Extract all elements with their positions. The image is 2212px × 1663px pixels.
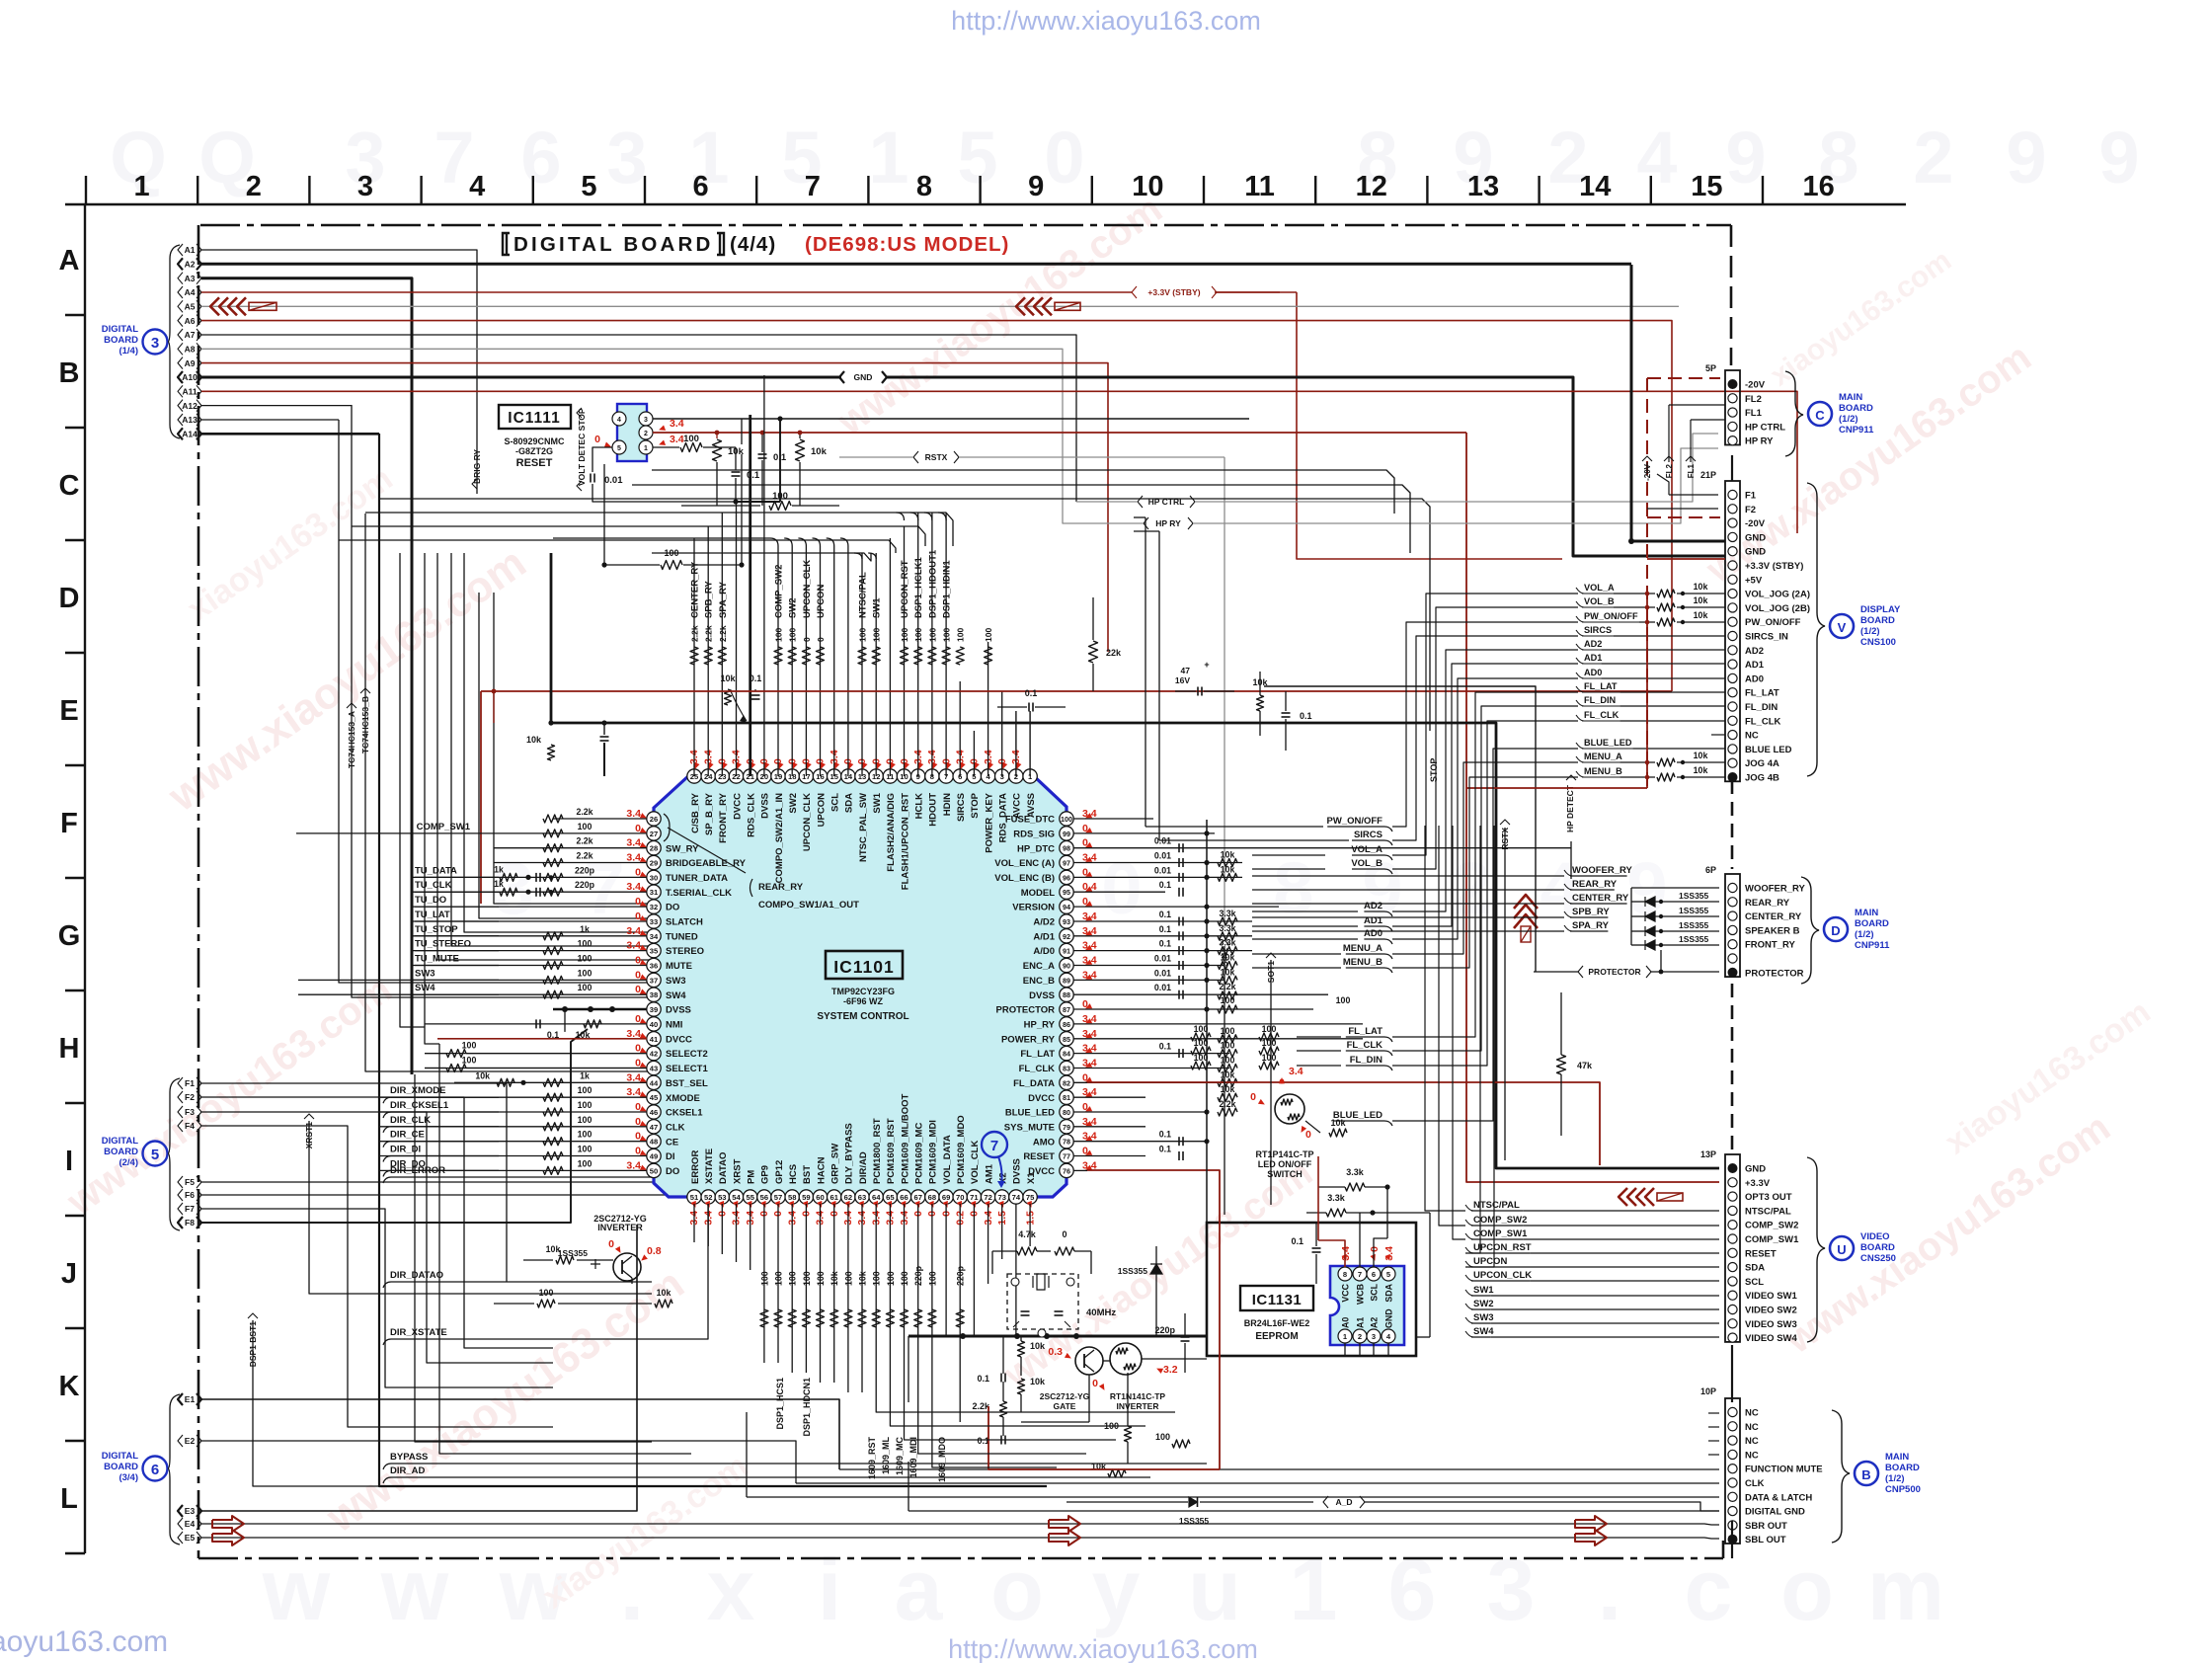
svg-text:DIGITAL: DIGITAL	[102, 324, 138, 335]
svg-text:100: 100	[578, 1100, 592, 1110]
svg-text:67: 67	[913, 1193, 921, 1202]
svg-text:HP_RY: HP_RY	[1024, 1020, 1056, 1031]
svg-text:58: 58	[788, 1193, 796, 1202]
net tag RSTX	[913, 451, 918, 463]
svg-text:RESET: RESET	[1745, 1248, 1777, 1259]
title DIGITAL BOARD	[503, 233, 510, 255]
svg-text:HDIN: HDIN	[942, 793, 953, 816]
IC1111 wires	[653, 418, 1249, 420]
47k resistor	[1557, 1055, 1566, 1074]
svg-text:81: 81	[1063, 1093, 1070, 1102]
IC1101 left pins 26..50	[647, 812, 661, 826]
svg-text:3.4: 3.4	[626, 1086, 641, 1098]
net tag E4	[178, 1518, 183, 1530]
red chevron arrow on A5 right	[1016, 297, 1025, 315]
svg-text:0.1: 0.1	[1159, 910, 1171, 919]
wire E1	[201, 1399, 839, 1469]
svg-text:PCM1609_MDO: PCM1609_MDO	[956, 1115, 967, 1184]
svg-text:86: 86	[1063, 1020, 1070, 1029]
svg-text:2.2k: 2.2k	[704, 625, 714, 642]
svg-text:ERROR: ERROR	[690, 1150, 701, 1184]
svg-text:i: i	[818, 1541, 841, 1638]
svg-text:IC1111: IC1111	[508, 410, 560, 427]
svg-text:0: 0	[608, 1238, 614, 1250]
svg-text:SIRCS_IN: SIRCS_IN	[1745, 632, 1788, 643]
svg-text:BRIDGEABLE_RY: BRIDGEABLE_RY	[666, 858, 747, 869]
svg-text:NC: NC	[1745, 1422, 1759, 1433]
svg-text:0.01: 0.01	[604, 475, 623, 486]
svg-text:100: 100	[539, 1288, 554, 1298]
wire F2	[201, 1097, 553, 1348]
wire bundle from IC1101 bottom pins	[693, 1204, 695, 1242]
capacitor 0.1 below	[732, 471, 741, 473]
svg-text:LED ON/OFF: LED ON/OFF	[1258, 1159, 1312, 1169]
svg-text:FL_DATA: FL_DATA	[1013, 1078, 1055, 1089]
svg-text:0.01: 0.01	[1154, 983, 1171, 992]
svg-text:VERSION: VERSION	[1012, 903, 1055, 913]
svg-text:0: 0	[1305, 1129, 1311, 1141]
red feeder horizontal over IC	[481, 690, 1672, 692]
svg-text:0: 0	[802, 637, 812, 642]
svg-text:0.1: 0.1	[1159, 924, 1171, 934]
wire E4 with red arrows	[201, 1524, 1719, 1525]
svg-text:VIDEO SW3: VIDEO SW3	[1745, 1319, 1797, 1330]
right pin stub wires	[1073, 818, 1153, 820]
svg-text:62: 62	[844, 1193, 852, 1202]
IC1111 pin 2	[639, 426, 653, 439]
svg-text:NTSC/PAL: NTSC/PAL	[858, 572, 869, 618]
svg-text:AD0: AD0	[1584, 668, 1602, 677]
svg-text:0.1: 0.1	[1159, 1145, 1171, 1154]
svg-text:DIR_CE: DIR_CE	[390, 1130, 425, 1141]
svg-text:A/D1: A/D1	[1033, 931, 1055, 942]
svg-text:88: 88	[1063, 990, 1070, 999]
svg-text:0.8: 0.8	[647, 1245, 662, 1257]
svg-text:VOL_B: VOL_B	[1584, 596, 1615, 606]
svg-text:TUNED: TUNED	[666, 931, 698, 942]
svg-text:COMP_SW1: COMP_SW1	[1473, 1228, 1528, 1239]
svg-text:1SS355: 1SS355	[1679, 920, 1709, 930]
svg-text:BOARD: BOARD	[104, 335, 138, 346]
svg-text:HP RY: HP RY	[1155, 518, 1181, 528]
svg-text:F7: F7	[185, 1204, 195, 1214]
svg-text:SW2: SW2	[788, 597, 799, 618]
svg-text:7: 7	[1358, 1270, 1362, 1279]
IC1111 pin 3	[639, 412, 653, 426]
svg-text:-6F96 WZ: -6F96 WZ	[843, 996, 884, 1006]
svg-text:1k: 1k	[494, 864, 504, 874]
svg-text:100: 100	[1262, 1038, 1277, 1048]
svg-text:DVSS: DVSS	[666, 1005, 691, 1016]
red open arrow SBR right	[1575, 1516, 1607, 1532]
svg-text:VIDEO SW4: VIDEO SW4	[1745, 1333, 1798, 1344]
svg-text:CLK: CLK	[1745, 1478, 1765, 1489]
svg-text:3.3k: 3.3k	[1219, 909, 1235, 918]
svg-text:COMP_SW1: COMP_SW1	[417, 822, 471, 832]
svg-text:S-80929CNMC: S-80929CNMC	[504, 436, 565, 446]
net tag E1	[178, 1393, 183, 1405]
svg-text:K: K	[59, 1371, 80, 1402]
svg-text:0.01: 0.01	[1154, 865, 1171, 875]
wire K row returns	[415, 1074, 652, 1442]
svg-text:HP DETECT: HP DETECT	[1565, 784, 1575, 832]
wire extra left vertical	[400, 553, 425, 1027]
svg-text:RDS_CLK: RDS_CLK	[747, 793, 757, 837]
svg-text:(3/4): (3/4)	[118, 1472, 138, 1483]
svg-text:1SS355: 1SS355	[558, 1248, 589, 1258]
svg-text:c: c	[1685, 1541, 1733, 1638]
svg-text:2SC2712-YG: 2SC2712-YG	[1040, 1391, 1090, 1401]
svg-text:UPCON_RST: UPCON_RST	[1473, 1242, 1532, 1253]
svg-text:G: G	[58, 920, 81, 952]
svg-text:GND: GND	[1745, 547, 1766, 558]
svg-text:SW1: SW1	[872, 792, 883, 813]
node circle 5	[143, 1142, 168, 1166]
svg-text:80: 80	[1063, 1108, 1070, 1117]
svg-text:73: 73	[997, 1193, 1005, 1202]
svg-text:BOARD: BOARD	[1855, 918, 1889, 929]
svg-text:1SS355: 1SS355	[1179, 1516, 1210, 1526]
100 resistors FL rows	[1191, 1033, 1211, 1041]
svg-text:PCM1609_MC: PCM1609_MC	[914, 1123, 925, 1184]
svg-text:0: 0	[816, 637, 826, 642]
resistor 100 horizontal above IC	[604, 564, 660, 566]
svg-text:T.SERIAL_CLK: T.SERIAL_CLK	[666, 888, 732, 899]
ruler top ticks and column numbers	[85, 176, 87, 204]
svg-text:UPCON_CLK: UPCON_CLK	[802, 560, 813, 618]
node circle 3	[143, 330, 168, 355]
node circle 6	[143, 1457, 168, 1481]
svg-text:3: 3	[151, 335, 159, 352]
svg-text:10k: 10k	[526, 735, 542, 745]
svg-text:99: 99	[1063, 830, 1070, 838]
svg-text:CLK: CLK	[666, 1122, 685, 1133]
svg-text:AD2: AD2	[1584, 639, 1602, 649]
svg-text:DSP1_HDCN1: DSP1_HDCN1	[802, 1378, 812, 1437]
svg-text:TU_LAT: TU_LAT	[415, 910, 450, 920]
svg-text:6P: 6P	[1705, 865, 1716, 875]
svg-text:2: 2	[246, 171, 262, 202]
svg-text:90: 90	[1063, 962, 1070, 971]
svg-text:52: 52	[704, 1193, 712, 1202]
IC1101 right pins 100..76	[1060, 812, 1073, 826]
svg-text:14: 14	[1579, 171, 1611, 202]
bus TC74HC153 verticals	[379, 434, 1047, 1486]
svg-text:FUSE_DTC: FUSE_DTC	[1005, 815, 1055, 826]
wire bundle mid labels to 21P labels	[1392, 622, 1578, 827]
svg-text:(2/4): (2/4)	[118, 1157, 138, 1168]
svg-text:TU_DATA: TU_DATA	[415, 865, 457, 876]
svg-text:42: 42	[650, 1050, 658, 1059]
svg-text:100: 100	[774, 1271, 784, 1286]
svg-text:D: D	[1831, 923, 1840, 938]
svg-text:DVCC: DVCC	[732, 793, 743, 820]
svg-text:ENC_B: ENC_B	[1023, 976, 1055, 987]
svg-text:6: 6	[151, 1462, 159, 1478]
resistor rows right of IC	[1218, 859, 1237, 867]
net tag E2	[178, 1435, 183, 1447]
brace C	[1785, 371, 1803, 456]
resistor 10k second	[796, 439, 805, 461]
net label DSP1 BST1 vertical	[248, 1313, 258, 1318]
svg-text:4.7k: 4.7k	[1018, 1229, 1037, 1239]
svg-text:100: 100	[872, 628, 882, 642]
BLUE_LED transistor	[1275, 1094, 1304, 1124]
svg-text:87: 87	[1063, 1005, 1070, 1014]
net tag E5	[178, 1532, 183, 1544]
wire A14 thick	[201, 433, 379, 436]
svg-text:TU_CLK: TU_CLK	[415, 880, 452, 891]
red bus DVCC to IC1131	[1087, 1170, 1220, 1469]
red open arrow SBL right	[1575, 1530, 1607, 1545]
svg-text:0: 0	[594, 434, 600, 445]
net tag PROTECTOR	[1578, 966, 1583, 978]
svg-text:93: 93	[1063, 917, 1070, 926]
net tag F5	[178, 1176, 183, 1188]
svg-text:(1/2): (1/2)	[1860, 626, 1880, 637]
svg-text:SCL: SCL	[830, 793, 841, 812]
svg-text:A10: A10	[182, 372, 197, 382]
transistor Q RT1N INVERTER	[1110, 1343, 1142, 1375]
feeder curves into drops	[770, 538, 778, 546]
brace for A group	[168, 245, 180, 438]
svg-text:WOOFER_RY: WOOFER_RY	[1745, 884, 1806, 895]
svg-text:0.1: 0.1	[773, 452, 787, 463]
bottom field risers to B connector	[876, 1402, 1175, 1412]
svg-text:FLASH2/ANA/DIG: FLASH2/ANA/DIG	[886, 793, 897, 872]
svg-text:10k: 10k	[1221, 967, 1235, 977]
red open arrow E5 mid	[1049, 1530, 1080, 1545]
wire A2 thick GND	[201, 263, 1631, 266]
svg-text:CNP500: CNP500	[1885, 1484, 1921, 1495]
svg-text:DIR/AD: DIR/AD	[858, 1151, 869, 1184]
svg-text:SYSTEM CONTROL: SYSTEM CONTROL	[817, 1011, 908, 1022]
long bottom wires to connector B	[839, 1468, 1719, 1470]
net tag E3	[178, 1505, 183, 1517]
svg-text:84: 84	[1063, 1050, 1070, 1059]
svg-text:BOARD: BOARD	[104, 1147, 138, 1157]
red vertical +3.3V net	[1466, 433, 1719, 1182]
svg-text:3.4: 3.4	[626, 925, 641, 937]
svg-text:0.1: 0.1	[747, 470, 760, 481]
svg-text:100: 100	[578, 822, 592, 831]
svg-text:3.3k: 3.3k	[1346, 1167, 1365, 1177]
svg-text:CENTER_RY: CENTER_RY	[1572, 893, 1629, 904]
wire A1	[201, 250, 477, 494]
svg-text:100: 100	[1194, 1038, 1209, 1048]
svg-text:A2: A2	[185, 260, 196, 270]
svg-text:10k: 10k	[829, 1271, 839, 1286]
svg-text:100: 100	[462, 1041, 477, 1051]
svg-text:0: 0	[1250, 1091, 1256, 1103]
svg-text:35: 35	[650, 947, 659, 956]
svg-text:FL_CLK: FL_CLK	[1347, 1040, 1383, 1051]
svg-text:A: A	[59, 245, 80, 277]
wire A7	[201, 335, 1076, 502]
svg-text:UPCON_CLK: UPCON_CLK	[1473, 1270, 1532, 1281]
svg-text:WOOFER_RY: WOOFER_RY	[1572, 865, 1633, 876]
svg-text:100: 100	[1061, 815, 1072, 824]
svg-text:3: 3	[1372, 1332, 1376, 1341]
svg-text:100: 100	[886, 1271, 896, 1286]
svg-text:DIR_DATAO: DIR_DATAO	[390, 1270, 443, 1281]
net tag A12	[178, 400, 183, 412]
resistor 100 on pin1	[653, 446, 679, 448]
wire A5 gray with red arrow	[201, 305, 1679, 307]
svg-text:3.4: 3.4	[626, 1159, 641, 1171]
vertical bundle into U label rows	[1425, 826, 1465, 1211]
svg-text:3.4: 3.4	[1289, 1066, 1303, 1077]
note REAR_RY / COMPO_SW1/A1_OUT	[668, 828, 746, 873]
net tag F4	[178, 1120, 183, 1132]
svg-text:BOARD: BOARD	[1860, 1242, 1895, 1253]
svg-text:10P: 10P	[1700, 1386, 1716, 1396]
svg-text:10k: 10k	[1330, 1118, 1346, 1128]
svg-text:1SS355: 1SS355	[1679, 906, 1709, 915]
svg-text:43: 43	[650, 1065, 658, 1073]
svg-text:http://www.xiaoyu163.com: http://www.xiaoyu163.com	[948, 1634, 1258, 1663]
svg-text:E3: E3	[185, 1506, 196, 1516]
left pin feed wires	[553, 818, 647, 820]
svg-text:100: 100	[462, 1056, 477, 1066]
svg-text:74: 74	[1012, 1193, 1021, 1202]
svg-text:DSP1_HCS1: DSP1_HCS1	[775, 1378, 785, 1430]
svg-text:BLUE LED: BLUE LED	[1745, 745, 1792, 755]
wire A8 gray	[201, 349, 1076, 523]
svg-text:3: 3	[606, 117, 647, 198]
net tag F8	[178, 1217, 183, 1228]
svg-text:100: 100	[1262, 1024, 1277, 1034]
wire A12	[201, 405, 352, 407]
svg-text:DIR_DI: DIR_DI	[390, 1145, 421, 1155]
svg-text:HCS: HCS	[788, 1164, 799, 1184]
wire A9 red	[201, 363, 1108, 640]
svg-text:3.4: 3.4	[626, 1071, 641, 1083]
svg-text:DO: DO	[666, 1166, 679, 1177]
svg-text:CKSEL1: CKSEL1	[666, 1108, 703, 1119]
svg-text:1SS355: 1SS355	[1118, 1266, 1148, 1276]
svg-text:15: 15	[1691, 171, 1722, 202]
svg-text:44: 44	[650, 1078, 659, 1087]
wires from gate cluster right	[1103, 1360, 1110, 1362]
brace V	[1807, 483, 1825, 776]
diode 1SS355 row	[1645, 897, 1655, 907]
svg-text:0: 0	[635, 969, 641, 981]
svg-text:VIDEO SW1: VIDEO SW1	[1745, 1291, 1798, 1302]
svg-text:85: 85	[1063, 1035, 1070, 1044]
svg-text:JOG 4B: JOG 4B	[1745, 773, 1779, 784]
svg-text:CENTER_RY: CENTER_RY	[1745, 911, 1802, 922]
svg-text:w: w	[262, 1541, 331, 1638]
svg-text:SW1: SW1	[1473, 1285, 1494, 1296]
svg-text:220p: 220p	[575, 880, 595, 890]
svg-text:1609_RST: 1609_RST	[867, 1437, 877, 1480]
svg-text:FL2: FL2	[1665, 463, 1674, 478]
ruler left ticks and row letters	[65, 314, 85, 316]
svg-text:32: 32	[650, 903, 658, 911]
svg-text:11: 11	[1244, 171, 1275, 202]
svg-text:0.1: 0.1	[1159, 939, 1171, 949]
svg-text:16: 16	[1802, 171, 1834, 202]
svg-text:F3: F3	[185, 1107, 195, 1117]
svg-text:GATE: GATE	[1054, 1401, 1076, 1411]
capacitor 0.1 node	[758, 453, 767, 455]
IC1131 enclosure	[1207, 1223, 1416, 1356]
svg-text:DVSS: DVSS	[1012, 1158, 1023, 1184]
svg-text:DIGITAL: DIGITAL	[102, 1451, 138, 1462]
svg-text:65: 65	[886, 1193, 895, 1202]
net tag A9	[178, 357, 183, 369]
svg-text:SW3: SW3	[415, 968, 435, 979]
brace for F group	[168, 1078, 180, 1230]
svg-text:SW1: SW1	[872, 597, 883, 618]
svg-text:HP CTRL: HP CTRL	[1148, 497, 1185, 507]
svg-text:PCM1609_MDI: PCM1609_MDI	[928, 1120, 939, 1184]
svg-text:13P: 13P	[1700, 1149, 1716, 1159]
wire bundle into IC1101 top pins	[693, 538, 695, 776]
svg-text:2: 2	[644, 431, 648, 437]
IC1131 top pins	[1338, 1267, 1352, 1281]
svg-text:10k: 10k	[1030, 1377, 1046, 1386]
svg-text:+3.3V (STBY): +3.3V (STBY)	[1147, 287, 1200, 297]
svg-text:78: 78	[1063, 1138, 1070, 1147]
diode 1SS355 row	[1645, 911, 1655, 921]
svg-text:MENU_B: MENU_B	[1584, 766, 1622, 776]
long wires from labels right	[1252, 854, 1325, 856]
red open arrow E5 left	[212, 1530, 244, 1545]
svg-text:9: 9	[2098, 117, 2139, 198]
svg-text:PROTECTOR: PROTECTOR	[996, 1005, 1056, 1016]
svg-text:AD2: AD2	[1364, 901, 1382, 911]
svg-text:0.01: 0.01	[1154, 954, 1171, 964]
svg-text:0: 0	[1044, 117, 1084, 198]
svg-text:DIGITAL: DIGITAL	[102, 1136, 138, 1147]
svg-text:TUNER_DATA: TUNER_DATA	[666, 873, 728, 884]
svg-text:VOL_A: VOL_A	[1584, 583, 1615, 593]
svg-text:NC: NC	[1745, 1408, 1759, 1419]
IC1131 bottom pins	[1338, 1329, 1352, 1343]
svg-text:HP CTRL: HP CTRL	[1745, 422, 1785, 433]
svg-text:0: 0	[635, 1058, 641, 1069]
red dashed box around C/21P	[1646, 378, 1648, 786]
svg-text:DO: DO	[666, 903, 679, 913]
brace U	[1807, 1157, 1825, 1342]
svg-text:DIR_CLK: DIR_CLK	[390, 1115, 431, 1126]
IC1111 pin 1	[639, 440, 653, 454]
svg-text:VOL_ENC (B): VOL_ENC (B)	[994, 873, 1055, 884]
svg-text:VOL_CLK: VOL_CLK	[970, 1141, 981, 1184]
+3.3V STBY red tag and wire	[1132, 286, 1137, 298]
svg-text:2.2k: 2.2k	[1219, 1099, 1235, 1109]
svg-text:UPCON_CLK: UPCON_CLK	[802, 793, 813, 851]
net tags HP CTRL HP RY	[1138, 496, 1143, 508]
svg-text:10k: 10k	[1694, 582, 1708, 592]
svg-text:12: 12	[1356, 171, 1387, 202]
svg-text:A1: A1	[185, 245, 196, 255]
svg-text:RDS_SIG: RDS_SIG	[1013, 830, 1055, 840]
wire NC pin stub	[1711, 734, 1725, 736]
svg-text:3.4: 3.4	[626, 837, 641, 849]
svg-text:28: 28	[650, 844, 658, 853]
svg-text:MUTE: MUTE	[666, 961, 692, 972]
svg-text:100: 100	[900, 1271, 909, 1286]
svg-text:FL_LAT: FL_LAT	[1348, 1026, 1382, 1037]
svg-text:SP_B_RY: SP_B_RY	[704, 792, 715, 835]
svg-text:100: 100	[788, 628, 798, 642]
svg-text:http://www.xiaoyu163.com: http://www.xiaoyu163.com	[951, 6, 1261, 36]
svg-text:4: 4	[617, 417, 621, 424]
svg-text:UPCON_RST: UPCON_RST	[900, 560, 910, 618]
